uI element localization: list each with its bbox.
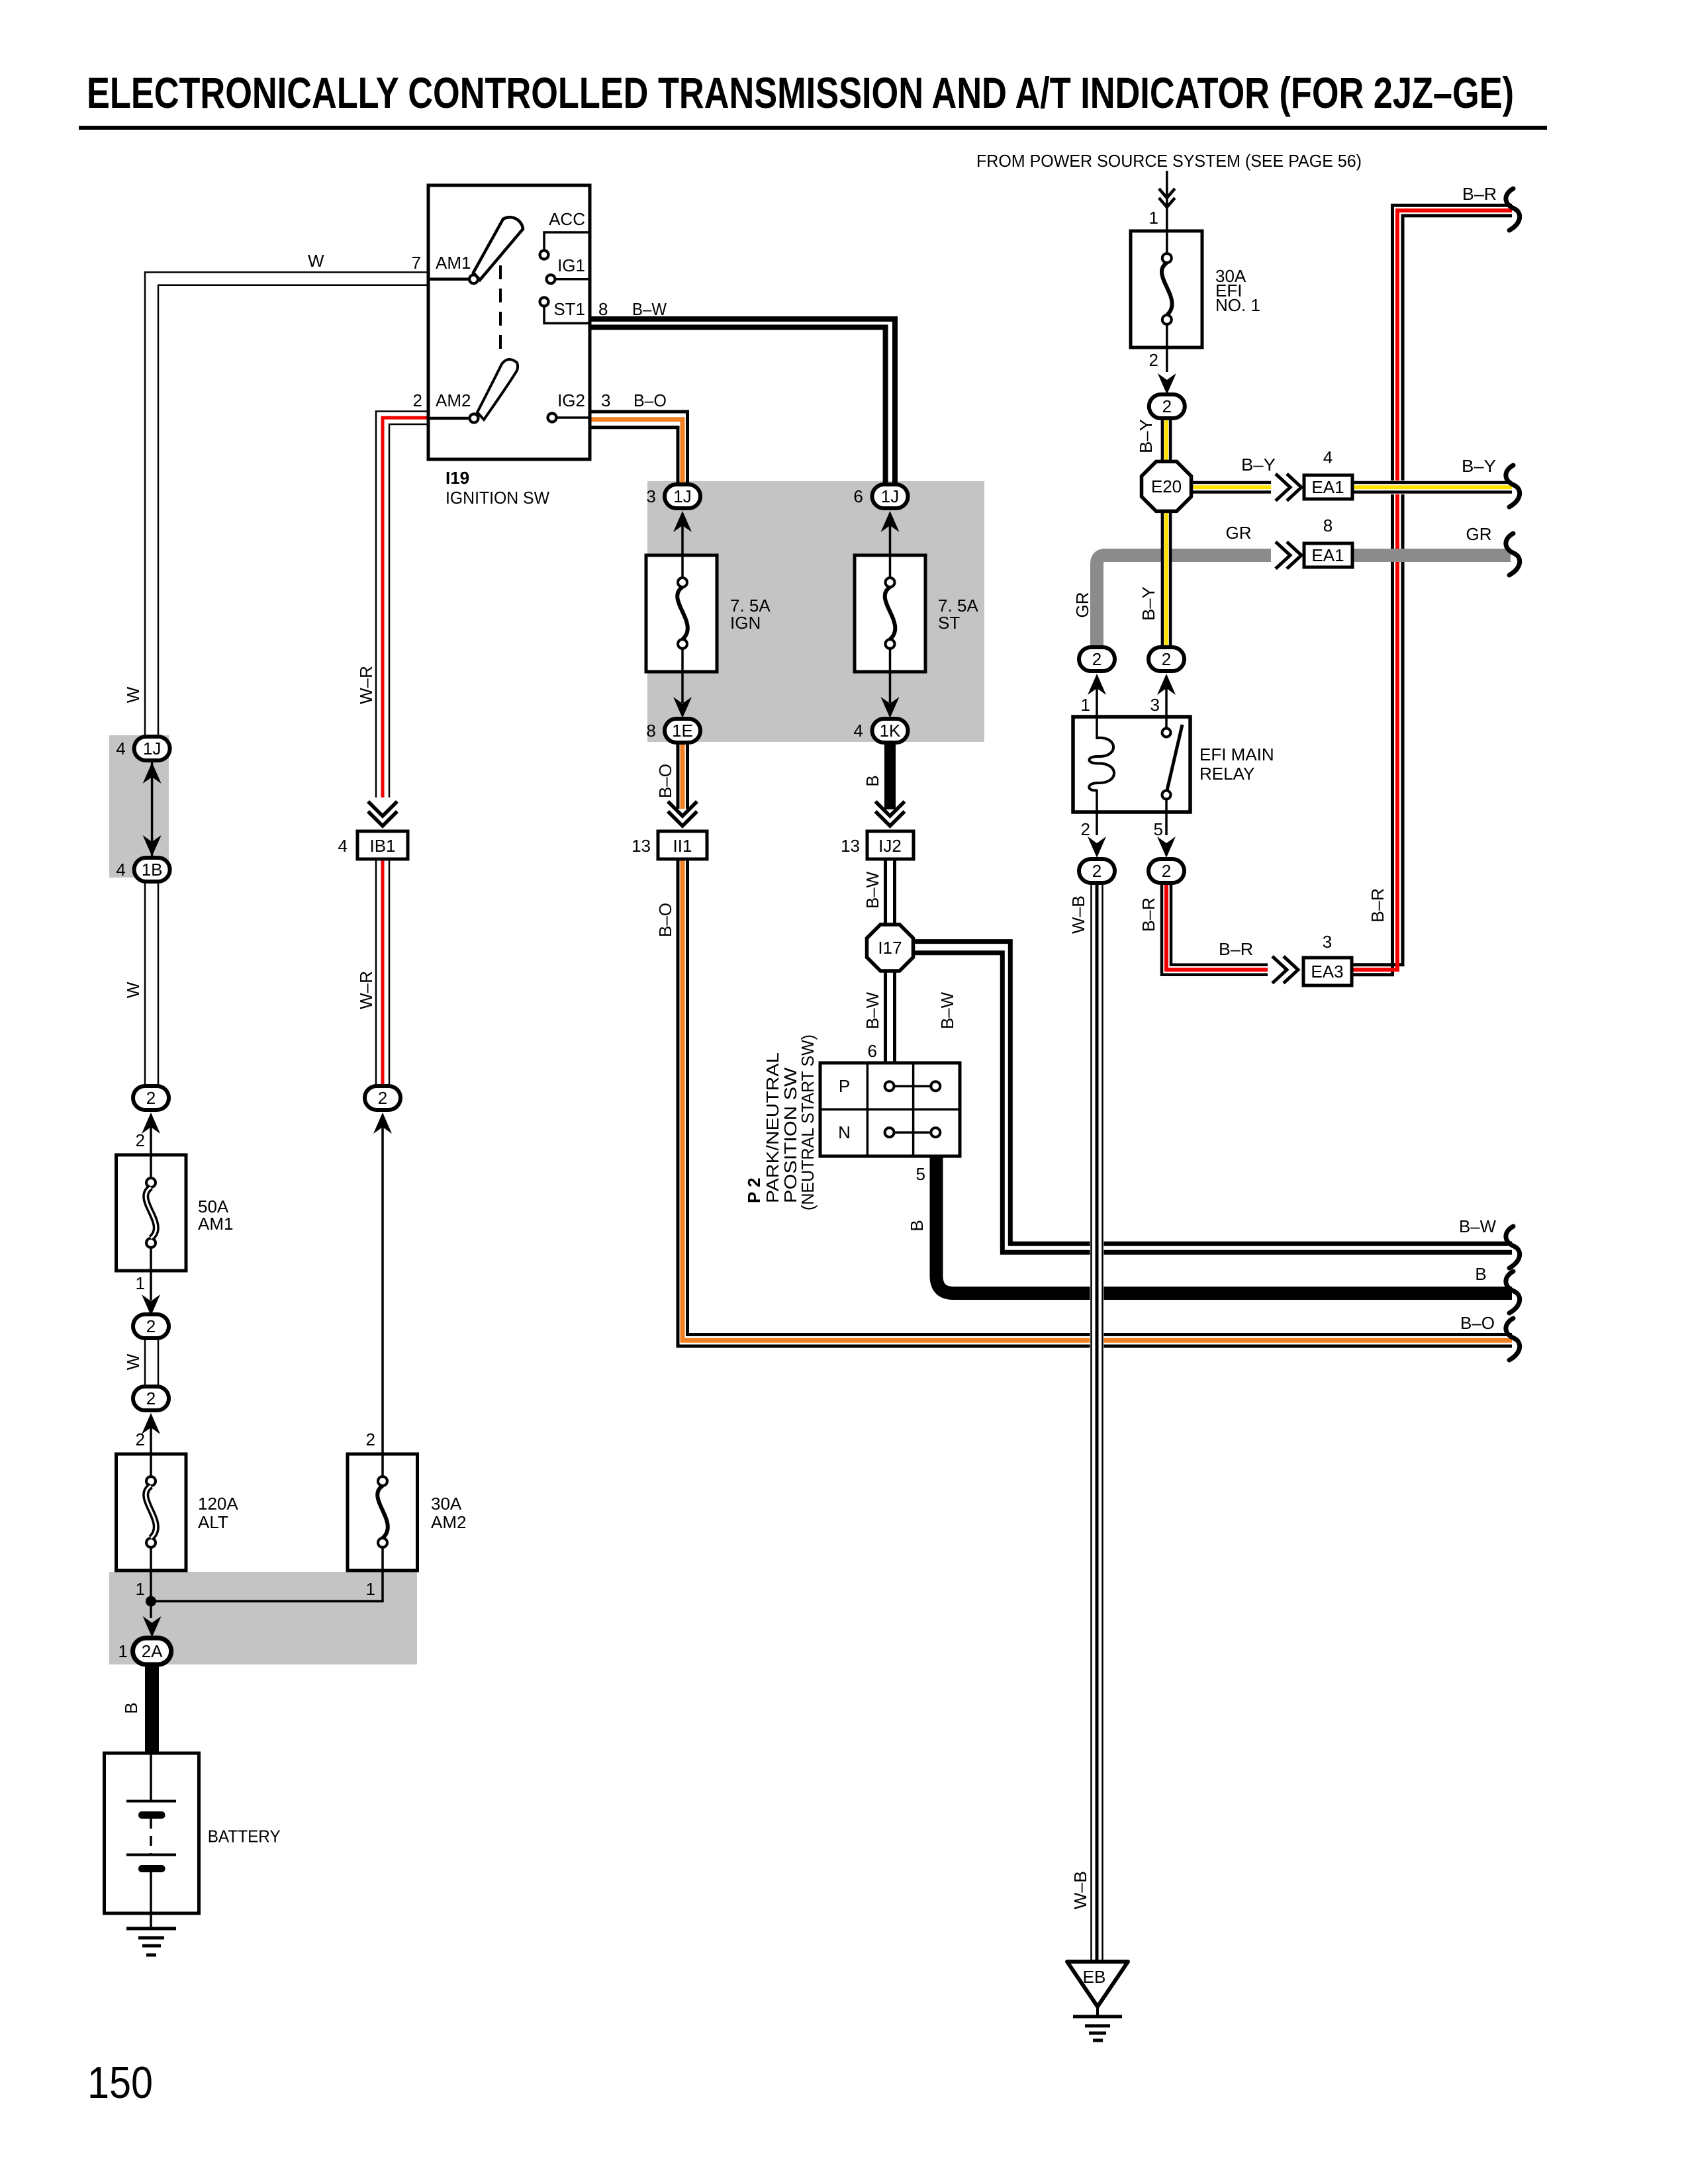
- svg-text:4: 4: [116, 739, 130, 758]
- relay switch: [1165, 717, 1168, 728]
- svg-text:ALT: ALT: [198, 1512, 228, 1532]
- svg-text:(NEUTRAL START SW): (NEUTRAL START SW): [798, 1034, 818, 1210]
- svg-text:B–R: B–R: [1219, 939, 1253, 959]
- wire: ST fuse to 1K: [889, 672, 892, 703]
- wire: 1J to 1B junction pass-through: [151, 762, 154, 856]
- svg-text:2: 2: [378, 1088, 387, 1108]
- svg-text:6: 6: [853, 486, 868, 506]
- svg-text:13: 13: [632, 836, 651, 856]
- svg-text:4: 4: [1323, 447, 1333, 467]
- svg-text:B–O: B–O: [1460, 1313, 1495, 1333]
- svg-text:4: 4: [338, 836, 348, 856]
- svg-text:8: 8: [646, 721, 661, 741]
- svg-text:3: 3: [1150, 695, 1160, 715]
- svg-text:2: 2: [146, 1388, 156, 1408]
- chevron arrows right into EA3: [1268, 955, 1303, 985]
- I19 terminal IG2: [548, 414, 557, 422]
- svg-text:W: W: [308, 251, 324, 271]
- svg-text:2: 2: [1162, 861, 1171, 881]
- relay coil: [1096, 717, 1098, 739]
- svg-text:2: 2: [1149, 350, 1158, 370]
- connector 2 (below relay pin 5): [1149, 859, 1184, 883]
- wire B-W: I17 branch right, down and right to edge curl: [913, 942, 1512, 1253]
- svg-text:IJ2: IJ2: [878, 836, 902, 856]
- svg-text:2: 2: [1162, 396, 1172, 416]
- battery: [105, 1753, 199, 1913]
- svg-text:AM1: AM1: [436, 253, 471, 273]
- svg-text:IGN: IGN: [730, 613, 761, 633]
- svg-text:AM2: AM2: [436, 390, 471, 410]
- svg-text:RELAY: RELAY: [1199, 764, 1254, 784]
- svg-text:3: 3: [646, 486, 661, 506]
- svg-text:2: 2: [146, 1088, 156, 1108]
- svg-text:2: 2: [1162, 649, 1171, 669]
- arrow down into 1E: [673, 697, 692, 718]
- svg-text:B–W: B–W: [863, 992, 882, 1029]
- svg-text:1E: 1E: [672, 721, 693, 741]
- svg-text:2: 2: [1092, 649, 1102, 669]
- wire GR: EFI relay pin1 connector up and right to EA1(8) and right edge: [1097, 555, 1511, 649]
- svg-text:5: 5: [916, 1164, 925, 1184]
- svg-text:B–R: B–R: [1139, 897, 1158, 932]
- curl: B-W continuation: [1506, 1226, 1520, 1268]
- svg-text:AM1: AM1: [198, 1214, 233, 1234]
- arrow down into connector 2 (pin2): [1088, 837, 1106, 858]
- connector 13 II1: [658, 831, 707, 859]
- fuse 30A AM2: [348, 1454, 418, 1570]
- svg-text:2: 2: [146, 1316, 156, 1336]
- ground (battery): [150, 1913, 152, 1929]
- I19 terminal IG1: [547, 275, 555, 283]
- I19 switch lever AM2: [477, 359, 518, 420]
- I19 switch lever AM1: [473, 217, 523, 280]
- arrow up into connector 2: [142, 1113, 160, 1134]
- connector 4 1J (left column): [134, 737, 170, 760]
- connector 2 (above 30A AM2): [365, 1086, 400, 1110]
- connector 2 (below relay pin 2): [1079, 859, 1115, 883]
- svg-text:B–Y: B–Y: [1136, 419, 1156, 453]
- fuse 30A EFI NO.1: [1131, 231, 1202, 347]
- connector 13 IJ2: [867, 831, 914, 859]
- chevron arrows down into II1: [668, 801, 697, 826]
- arrow down into connector 2 (pin5): [1157, 837, 1176, 858]
- svg-text:4: 4: [116, 860, 130, 880]
- I19 terminal AM2: [428, 417, 469, 420]
- wire B: 1K down to IJ2 (solid black): [884, 741, 896, 809]
- curl: GR continuation: [1506, 533, 1520, 575]
- wire W: ignition AM1 left then down to 1J(4): [145, 272, 428, 737]
- svg-text:I19: I19: [445, 468, 469, 488]
- svg-text:7: 7: [412, 253, 421, 273]
- svg-text:W: W: [123, 686, 143, 703]
- svg-text:IG1: IG1: [557, 255, 585, 275]
- svg-text:II1: II1: [673, 836, 692, 856]
- svg-text:B–Y: B–Y: [1241, 455, 1276, 475]
- svg-text:B: B: [907, 1220, 927, 1231]
- svg-text:GR: GR: [1466, 524, 1492, 544]
- I19 mechanical link (dashed): [499, 265, 502, 355]
- svg-text:2: 2: [136, 1130, 145, 1150]
- wire B: P2 pin 5 down then right to edge curl (solid black): [937, 1156, 1513, 1293]
- curl: B-O continuation: [1506, 1318, 1520, 1360]
- wire W-R: IB1 down to connector 2: [376, 859, 389, 1087]
- title rule: [79, 126, 1547, 130]
- wire B-W: IJ2 down to I17 junction and to P2 pin 6: [886, 859, 895, 1064]
- wire W: connector 1B down to connector 2: [145, 881, 158, 1087]
- connector 2 (relay pin 3, B-Y): [1149, 647, 1184, 671]
- svg-text:2A: 2A: [142, 1641, 163, 1661]
- wire: AM2 fuse to junction: [151, 1570, 383, 1602]
- connector 8 1E: [665, 719, 700, 743]
- svg-text:IB1: IB1: [369, 836, 395, 856]
- svg-text:W–B: W–B: [1068, 895, 1088, 934]
- svg-text:3: 3: [1323, 932, 1332, 952]
- arrow down into 1B: [143, 835, 162, 856]
- connector 2 (above 50A AM1): [133, 1086, 169, 1110]
- svg-text:EB: EB: [1083, 1967, 1106, 1987]
- svg-text:W–R: W–R: [356, 971, 376, 1009]
- svg-text:P 2: P 2: [744, 1177, 764, 1203]
- svg-text:B–W: B–W: [863, 872, 882, 909]
- arrow down into 1K: [881, 697, 900, 718]
- wire B: 2A to battery (solid black): [145, 1663, 159, 1753]
- connector 3 EA3: [1303, 958, 1352, 985]
- svg-text:B–R: B–R: [1462, 184, 1497, 204]
- ground EB triangle: [1067, 1962, 1128, 2007]
- svg-text:ACC: ACC: [549, 209, 585, 229]
- connector 4 IB1: [357, 831, 408, 859]
- svg-text:IGNITION SW: IGNITION SW: [445, 488, 549, 508]
- svg-text:120A: 120A: [198, 1494, 238, 1514]
- svg-text:W–B: W–B: [1070, 1871, 1090, 1909]
- svg-text:B–R: B–R: [1368, 888, 1387, 923]
- chevron arrows right into EA1(8): [1271, 541, 1304, 570]
- svg-text:GR: GR: [1226, 523, 1252, 543]
- svg-text:8: 8: [598, 299, 608, 319]
- svg-text:B–O: B–O: [655, 764, 675, 798]
- svg-text:W: W: [123, 1353, 143, 1370]
- svg-text:1: 1: [366, 1579, 375, 1599]
- svg-text:B–W: B–W: [632, 299, 667, 319]
- curl: B continuation: [1506, 1271, 1520, 1313]
- wires relay to output connectors: [1096, 812, 1098, 835]
- svg-text:B–W: B–W: [1459, 1216, 1496, 1236]
- svg-text:B: B: [1475, 1264, 1486, 1284]
- wire B-W: ignition ST1 right then down to 1J(6): [590, 319, 895, 484]
- svg-text:IG2: IG2: [557, 390, 585, 410]
- arrow up into 1J(3): [673, 511, 692, 532]
- svg-text:150: 150: [87, 2058, 153, 2108]
- wire W-B: relay pin2 connector down to EB ground (white w/ black stripe): [1090, 880, 1104, 1962]
- svg-text:1: 1: [136, 1273, 145, 1293]
- svg-text:ST: ST: [938, 613, 960, 633]
- splice I17 octagon: [867, 925, 914, 971]
- svg-text:EFI MAIN: EFI MAIN: [1199, 745, 1274, 764]
- junction node dot: [146, 1596, 156, 1607]
- svg-text:5: 5: [1154, 819, 1163, 839]
- svg-text:EA1: EA1: [1311, 545, 1344, 565]
- splice E20 octagon: [1142, 461, 1192, 511]
- svg-text:2: 2: [1081, 819, 1090, 839]
- svg-text:1J: 1J: [673, 486, 691, 506]
- svg-text:P: P: [839, 1076, 850, 1096]
- svg-text:W–R: W–R: [356, 666, 376, 704]
- svg-text:W: W: [123, 981, 143, 998]
- connector 4 EA1: [1304, 475, 1352, 499]
- svg-text:B–Y: B–Y: [1139, 586, 1158, 621]
- svg-text:1J: 1J: [143, 739, 161, 758]
- svg-text:1B: 1B: [142, 860, 163, 880]
- fuse 50A AM1: [117, 1155, 187, 1271]
- connector 4 1B: [134, 858, 170, 882]
- svg-text:2: 2: [1092, 861, 1102, 881]
- svg-text:B: B: [863, 775, 882, 786]
- svg-text:30A: 30A: [431, 1494, 462, 1514]
- fuse 7.5A ST: [855, 555, 925, 672]
- arrow up into connector 2 above ALT: [142, 1413, 160, 1434]
- svg-text:13: 13: [841, 836, 860, 856]
- wire W-R: ignition AM2 left then down to IB1 (white w/ red stripe): [376, 412, 428, 798]
- arrow down into 2A: [143, 1616, 162, 1637]
- chevron arrows down into IB1: [368, 801, 397, 826]
- curl: B-Y continuation: [1506, 465, 1520, 507]
- park/neutral position switch P2 box: [820, 1063, 960, 1156]
- connector 2 (below 50A AM1): [133, 1314, 169, 1338]
- svg-text:B–O: B–O: [633, 390, 667, 410]
- EFI main relay box: [1073, 717, 1190, 812]
- arrow up into connector 2 (pin3): [1157, 674, 1176, 695]
- svg-text:I17: I17: [878, 938, 902, 958]
- fuse 7.5A IGN: [646, 555, 717, 672]
- wire B-Y: vertical through E20 (white underlay, black edges, yellow core): [1161, 417, 1172, 650]
- I19 terminal ST1: [540, 298, 549, 306]
- svg-text:N: N: [838, 1122, 851, 1142]
- connector 2 (below EFI fuse): [1149, 394, 1185, 418]
- svg-text:BATTERY: BATTERY: [208, 1827, 281, 1846]
- chevron arrows down into IJ2: [876, 801, 905, 826]
- connector 6 1J (junction block): [872, 484, 908, 508]
- wire: IGN fuse to 1E: [681, 672, 684, 703]
- grey panel: junction block 1 (fuses IGN/ST area): [647, 481, 984, 742]
- svg-text:B–Y: B–Y: [1462, 456, 1496, 476]
- curl: B-R page-top continuation: [1506, 189, 1520, 230]
- connector 2 (above 120A ALT): [133, 1387, 169, 1410]
- chevron arrows right into EA1(4): [1271, 473, 1304, 502]
- svg-text:1: 1: [1081, 695, 1090, 715]
- grey panel: battery junction area: [109, 1572, 417, 1664]
- svg-text:B–W: B–W: [937, 992, 957, 1029]
- svg-text:B: B: [121, 1702, 141, 1713]
- svg-text:B–O: B–O: [655, 903, 675, 937]
- arrow down into connector 2 (EFI): [1158, 373, 1176, 394]
- connector 3 1J (junction block): [665, 484, 700, 508]
- svg-text:ELECTRONICALLY CONTROLLED TRAN: ELECTRONICALLY CONTROLLED TRANSMISSION A…: [87, 68, 1514, 117]
- svg-text:1J: 1J: [881, 486, 899, 506]
- wire: ALT fuse to junction: [150, 1570, 152, 1618]
- wire B-R: relay pin5 to EA3 and EA3 to page-top curl (black w/ red stripe): [1162, 205, 1512, 975]
- svg-text:6: 6: [868, 1041, 877, 1061]
- svg-text:2: 2: [413, 390, 422, 410]
- svg-text:1: 1: [136, 1579, 145, 1599]
- svg-text:EA1: EA1: [1311, 477, 1344, 497]
- arrow up into 1J(6): [881, 511, 900, 532]
- svg-text:3: 3: [601, 390, 610, 410]
- svg-text:AM2: AM2: [431, 1512, 466, 1532]
- svg-text:1: 1: [1149, 208, 1158, 228]
- arrow up into 1J: [143, 762, 162, 784]
- svg-text:2: 2: [136, 1430, 145, 1449]
- chevron arrows down at power source entry: [1166, 171, 1168, 231]
- wire B-O: ignition IG2 right then down to 1J(3): [590, 412, 688, 486]
- svg-text:1K: 1K: [880, 721, 901, 741]
- grey panel: connectors 1J/1B column: [109, 735, 169, 878]
- svg-text:NO. 1: NO. 1: [1215, 295, 1260, 315]
- wire B-Y: E20 right to EA1(4) and to right edge curl: [1191, 480, 1512, 494]
- wire B-O: 1E down through II1 then right to edge curl: [678, 741, 1512, 1346]
- svg-text:PARK/NEUTRAL: PARK/NEUTRAL: [763, 1052, 782, 1203]
- connector 2 (relay pin 1, GR): [1079, 647, 1115, 671]
- connector 8 EA1: [1304, 543, 1352, 567]
- ground symbol (EB): [1096, 2007, 1099, 2017]
- fuse 120A ALT (fusible link): [117, 1454, 187, 1570]
- svg-text:GR: GR: [1072, 592, 1092, 618]
- wire: EFI fuse to connector 2: [1166, 347, 1168, 372]
- svg-text:2: 2: [366, 1430, 375, 1449]
- svg-text:ST1: ST1: [553, 299, 585, 319]
- wire W: between connectors 2 and 2 (50A AM1 to 120A ALT): [145, 1338, 158, 1387]
- connector 4 1K: [872, 719, 908, 743]
- svg-text:8: 8: [1323, 516, 1333, 535]
- svg-text:FROM POWER SOURCE SYSTEM (SEE: FROM POWER SOURCE SYSTEM (SEE PAGE 56): [976, 151, 1362, 171]
- svg-text:E20: E20: [1151, 477, 1182, 496]
- wire: connector 2 down to 30A AM2: [381, 1125, 384, 1454]
- svg-text:4: 4: [853, 721, 868, 741]
- arrow up into connector 2 (pin1): [1088, 674, 1106, 695]
- connector 1 2A: [133, 1638, 171, 1664]
- I19 terminal ACC: [544, 232, 590, 250]
- arrow down into connector 2: [142, 1295, 160, 1316]
- svg-text:EA3: EA3: [1311, 962, 1343, 981]
- svg-text:1: 1: [118, 1641, 128, 1661]
- ignition switch I19 box: [428, 185, 590, 459]
- arrow up into connector 2 (AM2 column): [373, 1113, 392, 1134]
- I19 terminal AM1: [428, 278, 469, 281]
